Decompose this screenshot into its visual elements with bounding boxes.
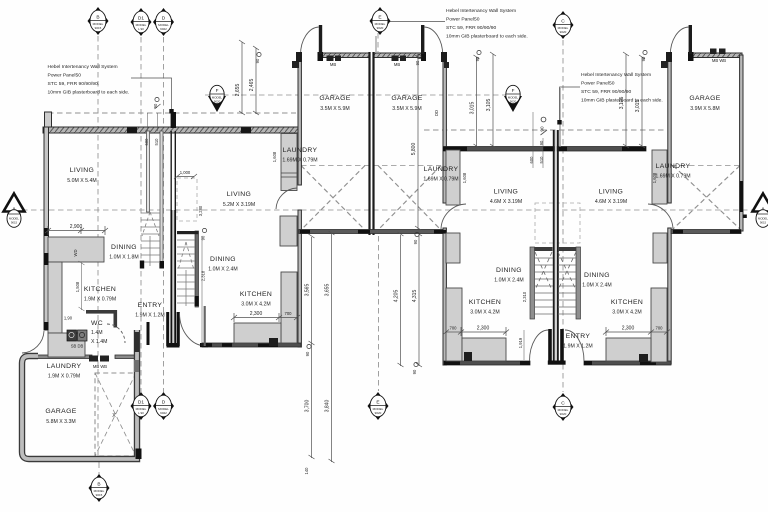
dim line 2900 unit1 kitchen	[48, 230, 105, 232]
wall: unit1 garage outer wall (rounded)	[22, 330, 137, 459]
dim line 3655/3840 right	[331, 234, 333, 462]
unit2 garage door jamb block	[292, 61, 299, 68]
svg-text:3.9M X 5.8M: 3.9M X 5.8M	[690, 106, 719, 112]
door: unit3 garage door leaf+arc	[421, 25, 424, 54]
unit1 washer dryer	[67, 330, 77, 341]
svg-text:WD: WD	[73, 250, 78, 257]
unit3 laundry bench	[446, 150, 460, 205]
svg-text:X 1.4M: X 1.4M	[91, 339, 107, 345]
svg-text:90: 90	[255, 58, 260, 63]
svg-text:D: D	[162, 16, 166, 22]
svg-text:4,315: 4,315	[412, 290, 418, 303]
svg-text:1,919: 1,919	[518, 337, 523, 348]
garage rear wall black blocks	[300, 230, 310, 234]
svg-text:3,015: 3,015	[470, 102, 476, 115]
svg-text:700: 700	[656, 326, 664, 331]
wall: garages 2-3 rear wall band	[299, 230, 446, 234]
svg-text:LIVING: LIVING	[227, 191, 251, 198]
svg-text:3,840: 3,840	[325, 400, 331, 413]
door: unit1 front door arc	[22, 331, 44, 353]
dim line 1508 unit1	[81, 263, 83, 310]
garage unit1 car space dashed box	[95, 373, 136, 456]
svg-text:3.5M X 5.9M: 3.5M X 5.9M	[392, 106, 421, 112]
svg-text:X: X	[112, 413, 116, 419]
dim stubs above party wall 3/4	[532, 112, 534, 168]
stair unit4	[558, 247, 581, 319]
dim line 2310 unit2 stair	[201, 236, 203, 346]
garage unit3 cross brace	[378, 166, 441, 231]
unit2 hall cabinet	[280, 216, 297, 246]
garage door line units2-3	[301, 165, 441, 167]
svg-text:D1: D1	[138, 16, 144, 22]
svg-text:9020: 9020	[560, 412, 567, 416]
marker F right	[504, 85, 522, 112]
svg-text:DINING: DINING	[210, 256, 236, 263]
bench division lines	[281, 172, 297, 174]
leader: annotation block B	[390, 21, 445, 23]
svg-text:E: E	[378, 15, 381, 21]
svg-text:LIVING: LIVING	[599, 189, 623, 196]
svg-text:5,800: 5,800	[411, 143, 417, 156]
svg-text:Power Panel50: Power Panel50	[48, 73, 82, 79]
svg-text:Power Panel50: Power Panel50	[446, 17, 480, 23]
svg-text:90: 90	[201, 235, 206, 240]
unit4 garage meter boxes	[710, 49, 717, 55]
svg-text:KITCHEN: KITCHEN	[84, 286, 116, 293]
wall: unit1 top-left pilaster	[45, 112, 52, 127]
door: unit2 entry door leaf+arc	[177, 312, 180, 346]
svg-text:3,105: 3,105	[619, 97, 625, 110]
svg-text:GARAGE: GARAGE	[319, 95, 350, 102]
garage unit4 cross brace	[673, 166, 740, 230]
unit3 garage meter boxes	[392, 56, 399, 62]
svg-text:1,508: 1,508	[75, 281, 80, 292]
diameter symbols on 90 dims	[155, 50, 647, 366]
marker D1 bottom	[131, 392, 152, 420]
svg-text:90: 90	[413, 239, 418, 244]
marker C bottom	[553, 393, 574, 421]
svg-text:2,300: 2,300	[250, 311, 263, 317]
svg-text:9022: 9022	[160, 411, 167, 415]
svg-text:700: 700	[450, 326, 458, 331]
svg-text:3.0M X 4.2M: 3.0M X 4.2M	[470, 310, 499, 316]
dim line 3565/3700 left	[311, 237, 313, 458]
marker E bottom	[368, 392, 389, 420]
svg-text:E: E	[376, 400, 379, 406]
svg-text:D1: D1	[138, 400, 144, 406]
wall: unit4 rear wall band	[584, 361, 671, 365]
svg-text:1.69M X 0.79M: 1.69M X 0.79M	[655, 174, 690, 180]
dim line 2465	[255, 48, 257, 114]
svg-text:9020: 9020	[377, 26, 384, 30]
svg-text:9020: 9020	[510, 99, 517, 103]
svg-text:1,608: 1,608	[272, 151, 277, 162]
svg-text:4,205: 4,205	[394, 290, 400, 303]
svg-text:9022: 9022	[160, 27, 167, 31]
svg-text:9020: 9020	[560, 30, 567, 34]
wall: unit3-4 front wall band	[443, 147, 646, 152]
svg-text:GARAGE: GARAGE	[45, 408, 76, 415]
wall: unit1 WC walls	[86, 310, 117, 314]
dim line 2300 unit2 kitchen	[234, 317, 279, 319]
svg-text:L 90: L 90	[138, 27, 144, 31]
svg-text:LAUNDRY: LAUNDRY	[656, 163, 691, 170]
unit1 kitchen bench top bar	[48, 237, 104, 262]
svg-text:9020: 9020	[375, 411, 382, 415]
svg-text:3,565: 3,565	[305, 284, 311, 297]
svg-text:SB DB: SB DB	[71, 344, 84, 349]
unit4 garage door jamb block	[661, 61, 668, 68]
wall: unit2 stair side wall	[195, 231, 199, 307]
svg-text:1.69M X 0.79M: 1.69M X 0.79M	[423, 177, 458, 183]
svg-text:90: 90	[540, 126, 545, 132]
svg-text:3.0M X 4.2M: 3.0M X 4.2M	[241, 302, 270, 308]
svg-text:5.8M X 3.3M: 5.8M X 3.3M	[46, 419, 75, 425]
svg-text:DINING: DINING	[584, 272, 610, 279]
svg-text:700: 700	[285, 311, 293, 316]
unit3 oven	[464, 352, 472, 361]
svg-text:1.0M X 2.4M: 1.0M X 2.4M	[582, 283, 611, 289]
svg-text:9015: 9015	[760, 221, 767, 225]
svg-text:GARAGE: GARAGE	[689, 95, 720, 102]
door: unit3 entry door leaf+arc	[548, 329, 552, 362]
unit4 oven	[639, 354, 648, 362]
dim line 3105 unit3	[492, 54, 494, 147]
svg-text:1.0M X 2.4M: 1.0M X 2.4M	[494, 278, 523, 284]
wall: unit4 garage rear wall band	[671, 230, 741, 234]
door: unit2 garage door leaf+arc	[319, 25, 322, 54]
svg-text:90: 90	[412, 369, 417, 374]
annotation block C	[581, 72, 663, 104]
svg-text:2,300: 2,300	[477, 326, 490, 332]
svg-text:L 90: L 90	[138, 411, 144, 415]
svg-text:140: 140	[304, 467, 309, 475]
grid line E vertical	[377, 33, 379, 52]
grid line F horizontal	[205, 94, 512, 96]
unit1 garage door device	[134, 332, 139, 352]
void outline above unit2 stair	[177, 178, 197, 221]
grid line C vertical	[562, 40, 564, 392]
svg-text:5.2M X 3.19M: 5.2M X 3.19M	[223, 202, 255, 208]
door: unit4 entry door leaf+arc	[560, 329, 564, 362]
svg-text:LAUNDRY: LAUNDRY	[283, 147, 318, 154]
door: unit3 laundry door arc	[441, 204, 466, 229]
leader: annotation block C	[560, 87, 581, 122]
svg-text:B: B	[97, 482, 100, 488]
svg-text:9020: 9020	[214, 99, 221, 103]
grid line A horizontal	[22, 209, 752, 211]
door: unit2 laundry door arc	[276, 188, 297, 209]
unit3 kitchen bench vertical	[446, 288, 462, 361]
svg-text:Hebel Intertenancy Wall System: Hebel Intertenancy Wall System	[581, 72, 651, 78]
svg-text:3.0M X 4.2M: 3.0M X 4.2M	[612, 310, 641, 316]
wall: unit3 west wall (garage side)	[443, 55, 446, 203]
door: unit1 wc door arc	[107, 324, 125, 343]
marker B top	[88, 7, 109, 35]
dim line 2300 unit3 kitchen	[461, 331, 506, 333]
svg-text:DD: DD	[434, 110, 439, 116]
svg-text:2,465: 2,465	[249, 79, 255, 92]
svg-text:F: F	[512, 88, 515, 93]
svg-text:2,900: 2,900	[70, 224, 83, 230]
svg-text:90: 90	[641, 56, 646, 61]
driveway bollard symbol	[541, 117, 546, 122]
wall: unit1 stair wall west	[147, 131, 150, 212]
unit2 oven	[269, 338, 278, 346]
unit2 laundry bench	[281, 134, 297, 191]
wall: unit4 garage east wall	[740, 55, 743, 231]
svg-text:LAUNDRY: LAUNDRY	[47, 363, 82, 370]
svg-text:LIVING: LIVING	[70, 167, 94, 174]
marker D bottom	[153, 392, 174, 420]
dim line 4315	[418, 235, 420, 366]
svg-text:3.5M X 5.9M: 3.5M X 5.9M	[320, 106, 349, 112]
grid line D1 vertical	[140, 37, 142, 392]
unit3 kitchen bench horizontal	[462, 338, 506, 361]
svg-text:1.9M X 1.2M: 1.9M X 1.2M	[563, 344, 592, 350]
wall: unit3 rear wall band	[444, 361, 530, 365]
unit2 garage meter boxes	[327, 56, 334, 62]
svg-text:KITCHEN: KITCHEN	[469, 299, 501, 306]
door: unit4 laundry door arc	[648, 204, 673, 229]
rotated dim texts	[64, 56, 663, 474]
unit4 hall cabinet	[653, 233, 667, 263]
svg-text:90: 90	[539, 140, 544, 145]
wall: unit2 kitchen rear wall band	[202, 343, 301, 347]
upper floor line over driveway unit3	[424, 129, 667, 131]
annotation block A	[48, 64, 130, 96]
wall: unit1 left exterior wall	[44, 127, 49, 330]
garage unit2 cross brace	[301, 166, 740, 231]
wall: party wall unit2/3	[368, 52, 370, 235]
stair unit3	[530, 247, 553, 319]
dim line 3105 unit4	[625, 54, 627, 147]
svg-text:1.9M X 0.79M: 1.9M X 0.79M	[48, 374, 80, 380]
svg-text:1.69M X 0.79M: 1.69M X 0.79M	[282, 158, 317, 164]
svg-text:DINING: DINING	[496, 267, 522, 274]
wall: unit1 stair wall east	[160, 131, 163, 268]
svg-text:510: 510	[539, 156, 544, 164]
wall: unit4 garage front wall band	[691, 53, 742, 58]
svg-text:10mm GIB plasterboard to each: 10mm GIB plasterboard to each side.	[48, 90, 130, 96]
unit1 left wall black segments	[44, 228, 49, 236]
svg-text:600: 600	[529, 156, 534, 164]
unit3 hall cabinet	[446, 233, 460, 263]
svg-text:9015: 9015	[11, 221, 18, 225]
svg-text:90: 90	[153, 103, 158, 108]
svg-text:1,608: 1,608	[652, 172, 657, 183]
marker A left	[4, 194, 25, 228]
svg-text:1.0M X 1.8M: 1.0M X 1.8M	[109, 255, 138, 261]
wall: unit3 garage front wall band	[374, 53, 424, 58]
svg-text:2,310: 2,310	[522, 291, 527, 302]
stair unit1	[140, 212, 160, 269]
wall: front wall black blocking segments	[127, 127, 137, 133]
svg-text:1,90: 1,90	[64, 316, 73, 321]
svg-text:9015: 9015	[96, 493, 103, 497]
marker F left	[208, 85, 226, 112]
wall: unit1 laundry/garage top wall	[26, 355, 92, 359]
svg-text:Power Panel50: Power Panel50	[581, 81, 615, 87]
svg-text:4.6M X 3.19M: 4.6M X 3.19M	[595, 199, 627, 205]
unit2 kitchen bench horizontal	[234, 323, 281, 343]
wall: driveway fence line unit3/4	[559, 88, 561, 147]
svg-text:3,655: 3,655	[325, 284, 331, 297]
svg-text:KITCHEN: KITCHEN	[240, 291, 272, 298]
dim line 1000 unit2	[177, 176, 194, 178]
wall: unit2 stairwell top	[177, 231, 199, 234]
wall: unit4 garage west wall	[668, 55, 671, 203]
svg-text:1.0M X 2.4M: 1.0M X 2.4M	[208, 267, 237, 273]
leader: annotation block A	[131, 78, 172, 112]
wall: unit2 garage front wall band	[321, 53, 370, 58]
dim line 3015 unit4	[641, 57, 643, 147]
svg-text:5.0M X 5.4M: 5.0M X 5.4M	[67, 178, 96, 184]
dim line 3015 unit3	[476, 57, 478, 147]
unit1 meter boxes MB WB	[89, 356, 98, 362]
marker D top	[153, 8, 174, 36]
svg-text:510: 510	[154, 138, 159, 146]
svg-text:2,318: 2,318	[201, 270, 206, 281]
marker D1 top	[131, 8, 152, 36]
svg-text:1.9M X 1.2M: 1.9M X 1.2M	[135, 313, 164, 319]
svg-text:9015: 9015	[95, 26, 102, 30]
svg-text:600: 600	[144, 138, 149, 146]
dim stubs above party wall 1/2	[147, 113, 149, 131]
svg-text:C: C	[561, 19, 565, 25]
wall: party wall unit1/2	[171, 112, 176, 128]
dim line 2300 unit4 kitchen	[606, 331, 651, 333]
svg-text:Hebel Intertenancy Wall System: Hebel Intertenancy Wall System	[48, 64, 118, 70]
svg-text:2,655: 2,655	[235, 84, 241, 97]
wall: party wall unit3/4	[553, 130, 555, 362]
svg-text:MB WB: MB WB	[712, 58, 726, 63]
garage door line unit4	[671, 165, 741, 167]
svg-text:1.4M: 1.4M	[91, 330, 103, 336]
stair unit2	[177, 240, 195, 306]
svg-text:STC 59, FRR 90/90/90: STC 59, FRR 90/90/90	[581, 89, 631, 95]
marker E top	[370, 7, 391, 35]
svg-text:STC 59, FRR 90/90/90.: STC 59, FRR 90/90/90.	[48, 81, 100, 87]
svg-text:90: 90	[305, 351, 310, 356]
wall: unit1-2 front wall band	[43, 127, 300, 133]
svg-text:Hebel Intertenancy Wall System: Hebel Intertenancy Wall System	[446, 8, 516, 14]
svg-text:90: 90	[415, 60, 420, 65]
unit4 kitchen bench horizontal	[606, 338, 651, 361]
wall: unit2 garage/kitchen west wall	[298, 57, 301, 185]
svg-text:DINING: DINING	[111, 244, 137, 251]
unit4 kitchen bench vertical	[651, 288, 667, 362]
dim line 5800	[417, 57, 419, 229]
svg-text:1,608: 1,608	[462, 172, 467, 183]
svg-text:WC: WC	[91, 320, 103, 327]
dim line 1919 unit3 entry	[523, 330, 525, 360]
svg-text:4.6M X 3.19M: 4.6M X 3.19M	[490, 199, 522, 205]
unit2 kitchen bench vertical	[281, 272, 297, 343]
svg-text:3,105: 3,105	[486, 99, 492, 112]
svg-text:STC 59, FRR 90/90/90: STC 59, FRR 90/90/90	[446, 25, 496, 31]
dim line 4205	[400, 235, 402, 366]
svg-text:D: D	[162, 400, 166, 406]
svg-text:KITCHEN: KITCHEN	[611, 299, 643, 306]
svg-text:LIVING: LIVING	[494, 189, 518, 196]
unit2 bottom wall black segs	[203, 343, 212, 347]
svg-text:3,280: 3,280	[198, 205, 203, 216]
grid line B bottom stub	[98, 462, 100, 475]
annotation block B	[446, 8, 528, 40]
svg-text:90: 90	[475, 56, 480, 61]
upper floor line over units1-2 living	[48, 112, 296, 114]
door leaf base blocks	[318, 52, 324, 61]
svg-text:3,700: 3,700	[305, 400, 311, 413]
svg-text:C: C	[561, 401, 565, 407]
unit1 laundry bench	[48, 333, 85, 357]
marker B bottom	[89, 474, 110, 502]
svg-text:MB: MB	[394, 62, 400, 67]
grid line B vertical	[97, 36, 99, 460]
svg-text:MB: MB	[330, 62, 336, 67]
svg-text:2,300: 2,300	[622, 326, 635, 332]
grid line D vertical	[163, 37, 165, 392]
svg-text:1.9M X 0.79M: 1.9M X 0.79M	[84, 297, 116, 303]
marker C top	[553, 11, 574, 39]
svg-text:3,015: 3,015	[635, 100, 641, 113]
svg-text:F: F	[216, 88, 219, 93]
dim line 2655	[241, 42, 243, 114]
svg-text:1,000: 1,000	[180, 170, 191, 175]
unit1 kitchen bench left column	[48, 262, 62, 333]
door: unit4 garage door leaf+arc	[689, 25, 692, 54]
marker A right	[753, 194, 768, 228]
unit3 garage door jamb block	[444, 62, 449, 68]
svg-text:GARAGE: GARAGE	[391, 95, 422, 102]
svg-text:LAUNDRY: LAUNDRY	[424, 166, 459, 173]
svg-text:ENTRY: ENTRY	[566, 333, 591, 340]
svg-text:B: B	[96, 15, 99, 21]
unit4 laundry bench	[652, 150, 667, 204]
svg-text:ENTRY: ENTRY	[138, 302, 163, 309]
svg-text:10mm GIB plasterboard to each: 10mm GIB plasterboard to each side.	[446, 34, 528, 40]
void outline above units3/4 dining	[535, 203, 580, 243]
svg-text:MB WB: MB WB	[93, 364, 107, 369]
